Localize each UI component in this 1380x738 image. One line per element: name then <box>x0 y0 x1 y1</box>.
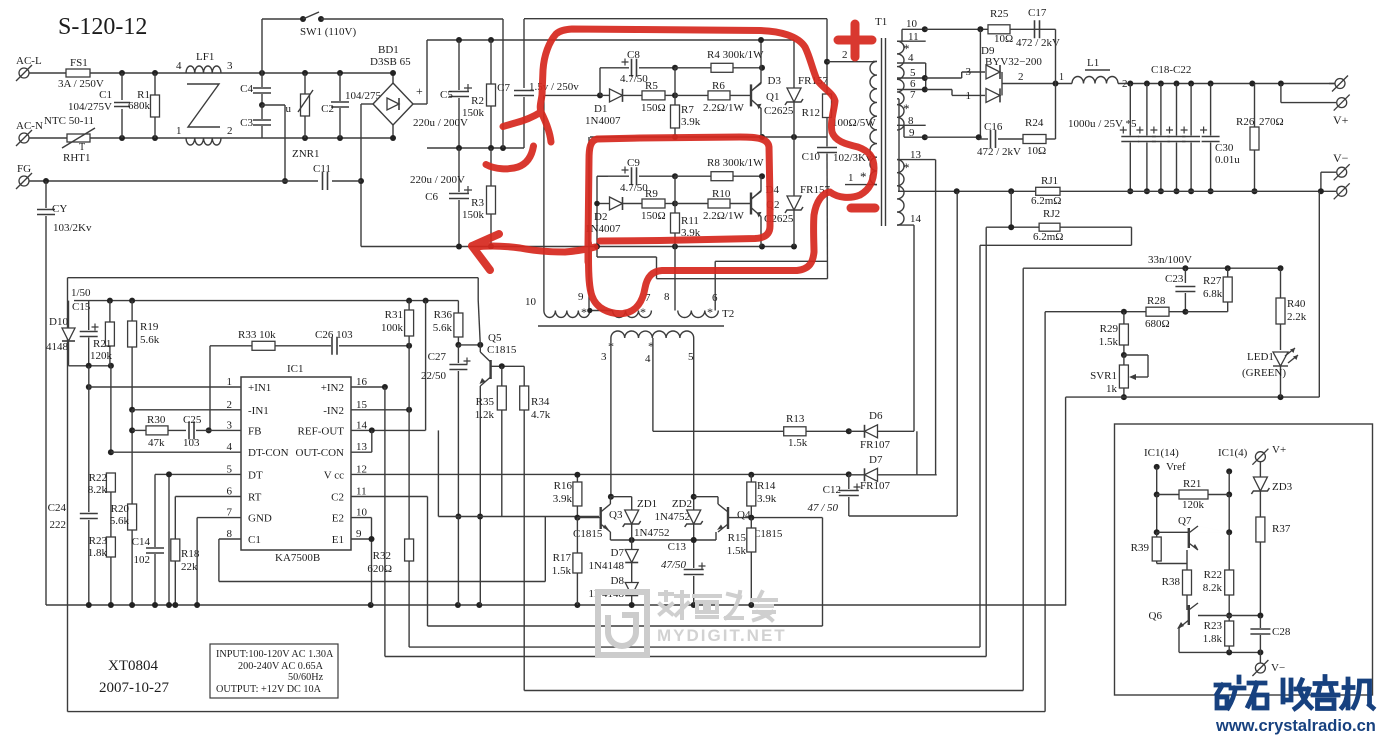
red annotation minus sign <box>851 204 875 213</box>
svg-text:BYV32−200: BYV32−200 <box>985 56 1042 68</box>
wire Q6 emitter rail <box>1178 628 1180 652</box>
wire V+ bus <box>1118 83 1340 85</box>
svg-text:FR107: FR107 <box>860 439 890 451</box>
svg-text:C27: C27 <box>428 351 447 363</box>
wire pin11 C2 net <box>351 496 428 498</box>
node IC1(4) pin <box>1226 468 1232 474</box>
svg-text:C18-C22: C18-C22 <box>1151 64 1191 76</box>
wire D9 cathodes join <box>1001 72 1003 95</box>
svg-text:IC1: IC1 <box>287 363 304 375</box>
wire RT pin6 <box>175 496 241 498</box>
watermark mydigit logo <box>598 592 647 655</box>
svg-text:T1: T1 <box>875 16 887 28</box>
svg-text:220u / 200V: 220u / 200V <box>410 174 465 186</box>
svg-text:D6: D6 <box>869 410 883 422</box>
resistor R4 300k/1W <box>711 63 733 72</box>
svg-text:Q6: Q6 <box>1149 610 1163 622</box>
wire DT pin5 <box>169 473 241 475</box>
resistor RJ2 6.2mohm <box>986 226 1039 228</box>
capacitor C2 <box>337 70 343 76</box>
resistor R31 100k <box>408 301 410 310</box>
T2 core <box>538 325 724 327</box>
svg-text:C2: C2 <box>331 492 344 504</box>
svg-text:R9: R9 <box>645 188 658 200</box>
varistor ZNR1 <box>302 70 308 76</box>
svg-text:C30: C30 <box>1215 142 1234 154</box>
svg-text:R36: R36 <box>434 309 453 321</box>
svg-text:KA7500B: KA7500B <box>275 552 320 564</box>
svg-text:5.6k: 5.6k <box>433 322 453 334</box>
diode D2 1N4007 <box>610 197 623 210</box>
wire BD1 + output <box>413 103 427 105</box>
T2 pin3 lead down to Q3 <box>610 338 612 497</box>
svg-text:C4: C4 <box>240 83 253 95</box>
resistor R36 5.6k <box>457 301 459 313</box>
wire GND pin7 <box>197 517 241 519</box>
svg-text:*: * <box>581 305 587 319</box>
resistor R9 150ohm <box>642 199 665 208</box>
zener ZD3 <box>1259 462 1261 477</box>
svg-text:3: 3 <box>966 66 972 78</box>
wire D1 row <box>545 94 600 96</box>
capacitor C25 103 <box>189 421 194 439</box>
svg-text:FB: FB <box>248 425 261 437</box>
svg-text:www.crystalradio.cn: www.crystalradio.cn <box>1215 717 1376 735</box>
svg-text:V cc: V cc <box>324 469 344 481</box>
svg-text:D2: D2 <box>594 211 607 223</box>
svg-text:8: 8 <box>227 528 233 540</box>
svg-text:222: 222 <box>50 519 67 531</box>
wire drive rail top <box>524 18 827 20</box>
svg-text:E2: E2 <box>332 513 344 525</box>
svg-text:LF1: LF1 <box>196 51 214 63</box>
red annotation plus sign <box>838 24 872 57</box>
resistor R25 10ohm <box>988 25 1010 34</box>
svg-text:+IN1: +IN1 <box>248 382 271 394</box>
svg-text:IC1(4): IC1(4) <box>1218 447 1248 459</box>
svg-text:1.8k: 1.8k <box>88 547 108 559</box>
wire R39 bottom to Q7 emitter <box>1157 563 1187 565</box>
svg-text:R6: R6 <box>712 80 725 92</box>
node -IN1 <box>129 407 135 413</box>
svg-text:V+: V+ <box>1333 113 1349 127</box>
thermistor RHT1 NTC 50-11 <box>67 134 90 142</box>
capacitor C27 22/50 <box>457 345 459 363</box>
svg-text:5.6k: 5.6k <box>140 334 160 346</box>
svg-text:R29: R29 <box>1100 323 1119 335</box>
resistor R23b 1.8k <box>1228 616 1230 622</box>
wire Q3 emitter to ZD row <box>609 532 611 540</box>
resistor R12 100ohm/5W <box>823 94 832 118</box>
svg-text:D3SB 65: D3SB 65 <box>370 56 411 68</box>
svg-text:(GREEN): (GREEN) <box>1242 367 1286 379</box>
svg-text:103: 103 <box>183 437 200 449</box>
resistor R29 1.5k <box>1123 312 1125 324</box>
svg-text:150Ω: 150Ω <box>641 102 666 114</box>
svg-text:Q5: Q5 <box>488 332 502 344</box>
capacitor C28 <box>1259 616 1261 629</box>
potentiometer SVR1 1k <box>1119 365 1128 388</box>
wire D6 to D7 link <box>916 431 918 475</box>
T2 pin4 center tap <box>652 338 654 431</box>
svg-text:47k: 47k <box>148 437 165 449</box>
svg-text:120k: 120k <box>1182 499 1205 511</box>
svg-text:IC1(14): IC1(14) <box>1144 447 1179 459</box>
terminal V+ b <box>1337 98 1347 108</box>
transistor Q1 C2625 <box>750 84 752 106</box>
svg-text:NTC 50-11: NTC 50-11 <box>44 115 94 127</box>
resistor R7 3.9k <box>674 95 676 105</box>
resistor R26 270ohm <box>1254 84 1256 128</box>
svg-text:C28: C28 <box>1272 626 1291 638</box>
resistor R19 5.6k <box>131 301 133 321</box>
svg-text:11: 11 <box>356 486 367 498</box>
T2 winding 8-6 <box>678 311 719 318</box>
svg-text:R31: R31 <box>385 309 403 321</box>
wire BD1 - output <box>361 103 373 105</box>
svg-text:Q3: Q3 <box>609 509 623 521</box>
svg-text:2: 2 <box>227 399 233 411</box>
svg-text:120k: 120k <box>90 350 113 362</box>
capacitor C8 <box>599 68 601 96</box>
red annotation stub <box>486 146 534 169</box>
svg-text:1.5k: 1.5k <box>727 545 747 557</box>
svg-text:4: 4 <box>645 353 651 365</box>
diode D1 1N4007 <box>610 89 623 102</box>
LF1 core Z <box>187 84 220 127</box>
resistor R6 2.2ohm/1W <box>675 94 708 96</box>
svg-text:7: 7 <box>227 507 233 519</box>
svg-text:9: 9 <box>578 291 584 303</box>
svg-text:C1: C1 <box>248 534 261 546</box>
T1 secondary winding lower 13-14 <box>897 160 904 226</box>
svg-text:10: 10 <box>356 507 368 519</box>
T2 winding 7-8 <box>613 311 652 318</box>
svg-text:R12: R12 <box>802 107 820 119</box>
svg-text:R13: R13 <box>786 413 805 425</box>
svg-text:Vref: Vref <box>1166 461 1186 473</box>
svg-text:1N4007: 1N4007 <box>585 115 621 127</box>
svg-text:-IN2: -IN2 <box>323 405 344 417</box>
resistor R16 3.9k <box>576 475 578 482</box>
wire C1 pin8 <box>219 538 241 540</box>
wire primary minus rail <box>361 246 599 248</box>
T1 secondary winding upper <box>897 41 904 130</box>
svg-text:10Ω: 10Ω <box>1027 145 1046 157</box>
wire -IN2 sense line <box>409 646 980 648</box>
svg-text:680Ω: 680Ω <box>1145 318 1170 330</box>
svg-text:47 / 50: 47 / 50 <box>807 502 838 514</box>
resistor R15 1.5k <box>750 518 752 528</box>
svg-text:ZD3: ZD3 <box>1272 481 1293 493</box>
svg-text:10: 10 <box>525 296 537 308</box>
svg-text:3.9k: 3.9k <box>553 493 573 505</box>
svg-text:R35: R35 <box>476 396 495 408</box>
svg-text:1N4148: 1N4148 <box>589 560 625 572</box>
detail box outline <box>1115 424 1373 695</box>
resistor R28 680ohm <box>1045 311 1146 313</box>
svg-text:INPUT:100-120V AC 1.30A: INPUT:100-120V AC 1.30A <box>216 649 334 660</box>
watermark crystalradio CJK <box>1216 677 1373 709</box>
resistor R27 6.8k <box>1227 268 1229 277</box>
svg-text:5.6k: 5.6k <box>110 515 130 527</box>
svg-text:1N4752: 1N4752 <box>655 511 690 523</box>
svg-text:MYDIGIT.NET: MYDIGIT.NET <box>657 626 787 645</box>
svg-text:C2: C2 <box>321 103 334 115</box>
capacitor C5 <box>456 37 462 43</box>
wire C27 to ground <box>457 517 459 606</box>
svg-text:150k: 150k <box>462 107 485 119</box>
wire R9-R10 node <box>674 176 676 203</box>
wire pin10 net <box>925 28 988 30</box>
T1 pin7 wire to common <box>898 99 900 192</box>
T2 pin5 lead down to Q4 <box>693 338 695 497</box>
capacitor C9 <box>597 175 629 177</box>
wire SVR1 bottom rail <box>1066 396 1320 398</box>
wire snubber vertical <box>1055 29 1057 139</box>
svg-text:10: 10 <box>906 18 918 30</box>
svg-text:R34: R34 <box>531 396 550 408</box>
svg-text:6: 6 <box>712 292 718 304</box>
svg-text:472 / 2kV: 472 / 2kV <box>1016 37 1060 49</box>
red annotation arm <box>503 112 541 127</box>
wire Q3 base node <box>574 515 580 521</box>
svg-text:-IN1: -IN1 <box>248 405 269 417</box>
svg-text:E1: E1 <box>332 534 344 546</box>
wire RJ left vertical <box>1010 191 1012 227</box>
svg-text:2: 2 <box>1018 71 1024 83</box>
svg-text:*: * <box>707 305 713 319</box>
wire R5-R6 node <box>674 68 676 96</box>
svg-text:620Ω: 620Ω <box>367 563 392 575</box>
wire RJ2 right loop <box>1131 227 1133 245</box>
resistor R40 2.2k <box>1280 268 1282 298</box>
svg-text:1: 1 <box>848 172 854 184</box>
capacitor C10 102/3Kv <box>826 118 828 147</box>
svg-text:OUT-CON: OUT-CON <box>296 447 345 459</box>
svg-text:R17: R17 <box>553 552 572 564</box>
wire T1 pin13 vertical <box>935 160 937 475</box>
diode D7b 1N4148 vertical <box>631 540 633 549</box>
svg-text:4: 4 <box>227 441 233 453</box>
svg-text:8: 8 <box>664 291 670 303</box>
svg-text:16: 16 <box>356 376 368 388</box>
svg-text:C5: C5 <box>440 89 453 101</box>
svg-text:D7: D7 <box>869 454 883 466</box>
resistor R37 <box>1256 517 1265 542</box>
svg-text:R2: R2 <box>471 95 484 107</box>
svg-text:ZNR1: ZNR1 <box>292 148 320 160</box>
svg-text:1: 1 <box>1059 72 1064 83</box>
svg-text:R40: R40 <box>1287 298 1306 310</box>
svg-text:6: 6 <box>227 486 233 498</box>
svg-text:C1815: C1815 <box>487 344 517 356</box>
svg-text:R7: R7 <box>681 104 694 116</box>
svg-text:C24: C24 <box>48 502 67 514</box>
svg-text:2.2Ω/1W: 2.2Ω/1W <box>703 210 744 222</box>
svg-text:1: 1 <box>227 376 233 388</box>
terminal V- b <box>1337 186 1347 196</box>
svg-text:220u / 200V: 220u / 200V <box>413 117 468 129</box>
wire Q7 collector <box>1228 495 1230 533</box>
svg-text:RJ2: RJ2 <box>1043 208 1060 220</box>
T1 pin13 lead <box>897 159 936 161</box>
svg-text:1.5v / 250v: 1.5v / 250v <box>529 81 579 93</box>
wire pin12 Vcc row <box>351 473 849 475</box>
svg-text:FS1: FS1 <box>70 57 88 69</box>
svg-text:14: 14 <box>910 213 922 225</box>
T2 winding 10-9 <box>544 311 590 318</box>
svg-text:R30: R30 <box>147 414 166 426</box>
svg-text:LED1: LED1 <box>1247 351 1274 363</box>
diode D4 FR157 <box>793 137 795 197</box>
svg-text:R8 300k/1W: R8 300k/1W <box>707 157 764 169</box>
svg-text:R19: R19 <box>140 321 159 333</box>
svg-text:2.2Ω/1W: 2.2Ω/1W <box>703 102 744 114</box>
svg-text:R26: R26 <box>1236 116 1255 128</box>
svg-text:12: 12 <box>356 463 367 475</box>
svg-text:RHT1: RHT1 <box>63 152 91 164</box>
svg-text:10Ω: 10Ω <box>994 33 1013 45</box>
capacitor CY <box>45 181 47 208</box>
svg-text:C26 103: C26 103 <box>315 329 353 341</box>
diode D3 FR157 <box>793 40 795 89</box>
svg-text:1.2k: 1.2k <box>475 409 495 421</box>
resistor R22 8.2k <box>106 473 115 492</box>
svg-text:11: 11 <box>908 31 919 43</box>
wire pin15 -IN2 row <box>351 409 409 411</box>
wire pin16 +IN2 net <box>351 386 385 388</box>
resistor R3 <box>490 148 492 186</box>
svg-text:Q1: Q1 <box>766 91 779 103</box>
svg-text:472 / 2kV: 472 / 2kV <box>977 146 1021 158</box>
wire top bus +310V <box>427 39 794 41</box>
svg-text:GND: GND <box>248 513 272 525</box>
svg-text:102: 102 <box>134 554 151 566</box>
wire Q6 collector to R22 bottom <box>1198 615 1260 617</box>
resistor R13 1.5k <box>784 427 806 436</box>
resistor RJ1 6.2mohm <box>1036 187 1060 195</box>
wire middle bus <box>427 147 524 149</box>
svg-text:1.5k: 1.5k <box>1099 336 1119 348</box>
resistor R18 22k <box>171 539 180 561</box>
svg-text:CY: CY <box>52 203 67 215</box>
svg-text:D10: D10 <box>49 316 68 328</box>
resistor R30 47k <box>129 427 135 433</box>
svg-text:FG: FG <box>17 163 31 175</box>
capacitor C11 <box>323 172 328 190</box>
resistor R32 620ohm <box>405 539 414 561</box>
node FG-C11 junction <box>358 178 364 184</box>
svg-text:2.2k: 2.2k <box>1287 311 1307 323</box>
svg-text:8.2k: 8.2k <box>88 484 108 496</box>
svg-text:AC-N: AC-N <box>16 120 43 132</box>
svg-text:C3: C3 <box>240 117 253 129</box>
svg-text:1k: 1k <box>1106 383 1118 395</box>
resistor R38 <box>1186 564 1188 571</box>
svg-text:T2: T2 <box>722 308 734 320</box>
svg-text:+: + <box>416 84 423 98</box>
wire pin1 +IN1 net <box>86 384 92 390</box>
resistor R20 5.6k <box>128 504 137 530</box>
svg-text:3: 3 <box>227 419 233 431</box>
diode D8 1N4148 <box>631 563 633 584</box>
svg-text:DT-CON: DT-CON <box>248 447 289 459</box>
capacitor C1 <box>121 73 123 100</box>
svg-text:15: 15 <box>356 399 368 411</box>
svg-text:50/60Hz: 50/60Hz <box>288 672 324 683</box>
wire E1 E2 join <box>351 517 372 519</box>
transistor Q3 C1815 <box>600 507 602 529</box>
resistor R21 120k <box>109 301 111 322</box>
T1 core <box>881 38 883 226</box>
inductor L1 <box>1072 77 1118 84</box>
wire AC-N <box>29 137 67 139</box>
wire DT-CON row <box>111 451 241 453</box>
fuse FS1 <box>66 69 90 77</box>
svg-text:AC-L: AC-L <box>16 55 42 67</box>
svg-text:1.5k: 1.5k <box>788 437 808 449</box>
node AC-L/C1 <box>119 70 125 76</box>
zener ZD1 1N4752 <box>610 496 631 498</box>
svg-text:R11: R11 <box>681 215 699 227</box>
svg-text:R24: R24 <box>1025 117 1044 129</box>
svg-text:1000u / 25V *5: 1000u / 25V *5 <box>1068 118 1137 130</box>
wire control box top edge <box>68 277 479 279</box>
wire RJ left sense down <box>985 227 987 656</box>
svg-text:4.7k: 4.7k <box>531 409 551 421</box>
svg-text:C23: C23 <box>1165 273 1184 285</box>
resistor R8 300k/1W <box>711 172 733 181</box>
svg-text:9: 9 <box>356 528 362 540</box>
svg-text:1.8k: 1.8k <box>1203 633 1223 645</box>
transistor Q2 C2625 <box>750 193 752 215</box>
capacitor C4 <box>261 73 263 87</box>
wire C12 bottom to V- sense <box>849 515 957 517</box>
wire R21 line to DT-CON <box>110 366 112 452</box>
terminal V- detail <box>1259 652 1261 663</box>
resistor R35 1.2k <box>501 366 503 386</box>
wire pin14 REF-OUT <box>351 429 426 431</box>
wire BD1 bottom to AC-N <box>392 125 394 138</box>
svg-text:V−: V− <box>1333 151 1349 165</box>
svg-text:R23: R23 <box>89 535 108 547</box>
svg-text:D3: D3 <box>768 75 782 87</box>
svg-text:REF-OUT: REF-OUT <box>298 425 345 437</box>
wire R33 to FB <box>209 346 211 431</box>
svg-text:RT: RT <box>248 492 262 504</box>
svg-text:R39: R39 <box>1131 542 1150 554</box>
svg-text:R32: R32 <box>373 550 391 562</box>
T1 primary winding <box>870 61 877 184</box>
resistor R10 2.2ohm/1W <box>675 203 708 205</box>
svg-text:C9: C9 <box>627 157 640 169</box>
svg-text:R21: R21 <box>1183 478 1201 490</box>
wire pin2 -IN1 <box>132 409 241 411</box>
T1 pins 10 11 box <box>897 40 926 42</box>
diode D9 bottom <box>926 89 952 91</box>
terminal V+ detail <box>1255 452 1265 462</box>
resistor R24 10ohm <box>1023 135 1046 144</box>
svg-text:C6: C6 <box>425 191 438 203</box>
svg-text:104/275V: 104/275V <box>68 101 112 113</box>
svg-text:R21: R21 <box>93 338 111 350</box>
svg-text:C12: C12 <box>823 484 841 496</box>
wire AC-L <box>29 72 66 74</box>
red annotation upper loop <box>540 29 874 314</box>
svg-text:1: 1 <box>966 90 972 102</box>
svg-text:2: 2 <box>227 125 233 137</box>
